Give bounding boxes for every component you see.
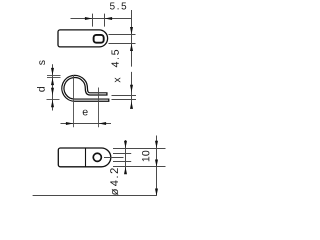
- e extension line through loop center: [73, 75, 75, 127]
- s extension line inner top: [47, 77, 61, 79]
- x dimension line vertical: [131, 72, 133, 107]
- extension tick left of 5.5: [92, 14, 94, 27]
- bottom view bend line: [85, 148, 87, 167]
- extension line hole bottom: [113, 161, 131, 163]
- label 4.2: [110, 168, 118, 186]
- side view clip strip white core: [63, 76, 108, 100]
- arrow up to x bottom: [130, 102, 133, 109]
- s d dimension line vertical: [52, 64, 54, 110]
- extension line outline top: [113, 148, 166, 150]
- s extension line outer top: [47, 75, 61, 77]
- extension line hole bottom: [109, 43, 136, 45]
- label e: [83, 110, 88, 116]
- baseline mounting surface: [33, 195, 157, 197]
- side view clip strip: [63, 76, 109, 100]
- dimension line 5.5: [71, 18, 132, 20]
- arrow down to x top: [130, 85, 133, 92]
- bottom view hole circle: [93, 153, 101, 161]
- extension line hole top: [109, 34, 136, 36]
- x extension line lower: [112, 99, 137, 101]
- label s: [39, 60, 45, 65]
- e extension line through hole center: [98, 88, 100, 128]
- arrow up to s bottom: [51, 78, 54, 85]
- top view slot hole: [94, 35, 104, 43]
- arrow left 5.5: [85, 17, 92, 20]
- arrow left to e right: [99, 122, 106, 125]
- arrow right 5.5: [105, 17, 112, 20]
- arrow up on dia line: [124, 167, 127, 174]
- label ø: [112, 189, 118, 195]
- arrow up below d line: [51, 100, 54, 107]
- arrow down to hole top: [130, 27, 133, 34]
- label d: [37, 87, 45, 92]
- extension line hole top: [113, 153, 131, 155]
- extension line outline bottom: [113, 166, 166, 168]
- arrow down to s top: [51, 68, 54, 75]
- dimension line 4.5 vertical: [131, 10, 133, 67]
- arrow down to bottom of 10: [155, 160, 158, 167]
- label 5.5: [110, 3, 126, 10]
- arrow down on dia line: [124, 141, 127, 148]
- hole center leader line: [104, 157, 124, 159]
- label x: [115, 78, 121, 83]
- dia 4.2 dimension line vertical: [125, 140, 127, 171]
- arrow right to e left: [66, 122, 73, 125]
- extension tick right of 5.5: [104, 14, 106, 27]
- top view tab outline: [58, 30, 108, 47]
- arrow down to baseline: [155, 189, 158, 196]
- arrow down to top of 10: [155, 141, 158, 148]
- e dimension line horizontal: [61, 123, 112, 125]
- label 4.5: [112, 50, 119, 67]
- d extension line bottom: [47, 99, 60, 101]
- 10 dimension line vertical: [156, 136, 158, 197]
- label 10: [142, 151, 149, 162]
- x extension line upper: [112, 95, 137, 97]
- arrow up to hole bottom: [130, 44, 133, 51]
- arrow down inside d: [51, 88, 54, 95]
- bottom view outline: [58, 148, 111, 167]
